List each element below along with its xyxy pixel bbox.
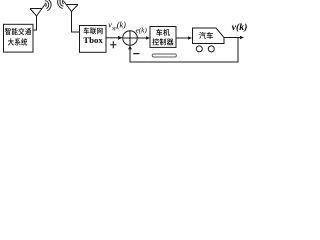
block B2: 车联网 Tbox bbox=[80, 26, 107, 53]
block B3: 车机控制器 (vehicle controller) bbox=[150, 27, 176, 48]
wire: feedback from output down, left, up into S1 (arrow) bbox=[130, 38, 238, 63]
car wheel right bbox=[208, 46, 214, 52]
wire: B3 to car plant (arrow) bbox=[176, 36, 192, 40]
wire: S1 to controller B3 (arrow) bbox=[137, 36, 150, 40]
shadow pill under B3 bbox=[152, 54, 176, 57]
car wheel left bbox=[196, 46, 202, 52]
wire: B2 output to summing junction S1 (arrow) bbox=[106, 36, 123, 40]
radio waves W2 (from AN2, to upper left) bbox=[58, 0, 64, 9]
svg-text:Tbox: Tbox bbox=[83, 35, 103, 45]
radio waves W1 (from AN1, to upper right) bbox=[45, 0, 51, 11]
block B1: 智能交通大系统 (intelligent traffic system) bbox=[4, 24, 34, 52]
label: - sign at S1 feedback input bbox=[133, 53, 139, 55]
plant: car icon 汽车 bbox=[193, 28, 225, 52]
summing junction S1 (circle with cross) bbox=[123, 31, 138, 46]
wire: plant output v(k) (arrow right) bbox=[224, 36, 244, 40]
label: + sign at S1 left input bbox=[110, 41, 116, 48]
antenna AN2 (on B2) with feed line bbox=[64, 1, 80, 32]
svg-text:e(k): e(k) bbox=[136, 26, 148, 34]
svg-text:v(k): v(k) bbox=[232, 22, 248, 33]
antenna AN1 (on B1) with feed line bbox=[30, 4, 45, 30]
